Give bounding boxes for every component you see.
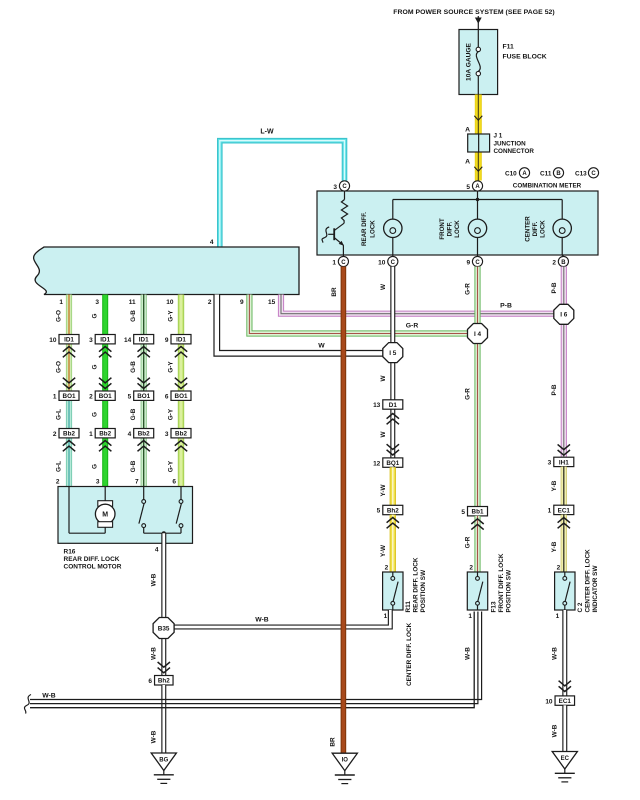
- wire G-Y: BO1 to Bb2: [178, 400, 184, 428]
- label R16 REAR DIFF. LOCK CONTROL MOTOR: [64, 549, 122, 571]
- wire: supply into fuse F11: [475, 16, 482, 30]
- svg-text:G-R: G-R: [464, 283, 471, 295]
- svg-text:I 6: I 6: [560, 312, 568, 319]
- wire G-B: ID1 to BO1: [138, 344, 150, 391]
- svg-text:POSITION SW: POSITION SW: [420, 569, 427, 613]
- wire G-Y: Bb2 to motor pin 6: [175, 438, 187, 487]
- svg-text:FROM POWER SOURCE SYSTEM (SEE: FROM POWER SOURCE SYSTEM (SEE PAGE 52): [393, 9, 554, 16]
- svg-text:P-B: P-B: [551, 282, 558, 293]
- svg-text:C: C: [591, 171, 596, 177]
- wire G-B: Bb2 to motor pin 7: [138, 438, 150, 487]
- connector IH1 pin 3: [548, 457, 574, 466]
- svg-text:5: 5: [128, 393, 132, 400]
- wire G-R: Bb1 to F13 pin 2: [464, 516, 483, 572]
- svg-text:9: 9: [466, 259, 470, 266]
- motor M symbol: [69, 487, 115, 534]
- meter pin 10 connector C: [378, 255, 398, 267]
- svg-text:5: 5: [377, 508, 381, 515]
- svg-text:BO1: BO1: [99, 393, 112, 400]
- svg-text:G-L: G-L: [56, 409, 63, 420]
- connector row ID1: [49, 335, 191, 344]
- connector codes C10 C11 C13: [505, 168, 599, 178]
- wire G: Bb2 to motor pin 3: [99, 438, 111, 487]
- svg-text:G-L: G-L: [56, 461, 63, 472]
- meter pin 3 connector C: [333, 181, 349, 191]
- wire G: BO1 to Bb2: [102, 400, 108, 428]
- motor limit switch 1: [139, 487, 146, 534]
- switch C2 center diff lock indicator sw: [555, 549, 599, 620]
- wire Y-B: EC1 to C2 pin 2: [551, 515, 570, 572]
- svg-text:G-B: G-B: [130, 361, 137, 373]
- svg-text:BO1: BO1: [175, 393, 188, 400]
- svg-text:LOCK: LOCK: [540, 220, 547, 238]
- svg-text:1: 1: [53, 393, 57, 400]
- wire G-B: BO1 to Bb2: [141, 400, 147, 428]
- svg-text:G-O: G-O: [56, 361, 63, 373]
- junction I5: [383, 343, 403, 363]
- svg-text:INDICATOR SW: INDICATOR SW: [592, 565, 599, 613]
- svg-text:Y-W: Y-W: [380, 544, 387, 557]
- svg-text:EC: EC: [561, 756, 570, 762]
- svg-text:F11: F11: [503, 44, 515, 51]
- wire G-O: ID1 to BO1: [63, 344, 75, 391]
- lamp: rear diff lock indicator: [361, 200, 402, 256]
- svg-text:12: 12: [373, 460, 381, 467]
- svg-text:1: 1: [468, 613, 472, 620]
- svg-text:I 5: I 5: [389, 350, 397, 357]
- svg-text:ID1: ID1: [64, 337, 74, 344]
- svg-text:10: 10: [545, 698, 553, 705]
- svg-text:G-O: G-O: [56, 310, 63, 322]
- wire G-R: I4 down to Bb1: [464, 343, 477, 507]
- wire G-R: ECU pin 9 to junction I4: [249, 295, 468, 334]
- svg-text:W: W: [380, 431, 387, 438]
- svg-text:Bh2: Bh2: [387, 507, 399, 514]
- wire G: ID1 to BO1: [99, 344, 111, 391]
- svg-text:W-B: W-B: [255, 617, 269, 624]
- connector EC1 pin 10: [545, 696, 574, 705]
- svg-text:10: 10: [49, 337, 57, 344]
- svg-text:J 1: J 1: [494, 133, 503, 140]
- svg-text:Y-B: Y-B: [551, 480, 558, 491]
- svg-text:1: 1: [332, 259, 336, 266]
- ground BG: [151, 753, 176, 783]
- svg-text:2: 2: [89, 393, 93, 400]
- connector row Bb2: [53, 429, 191, 438]
- svg-text:CONNECTOR: CONNECTOR: [494, 148, 535, 155]
- svg-text:R11: R11: [405, 601, 412, 613]
- labels G-O G G-B G-Y (segment 1): [56, 310, 175, 322]
- svg-text:B: B: [556, 171, 561, 177]
- svg-text:P-B: P-B: [500, 303, 512, 310]
- svg-text:14: 14: [124, 337, 132, 344]
- connector BQ1 pin 12: [373, 458, 403, 467]
- svg-text:10: 10: [378, 259, 386, 266]
- svg-text:G-R: G-R: [464, 388, 471, 400]
- svg-text:G-Y: G-Y: [168, 408, 175, 420]
- svg-text:BQ1: BQ1: [386, 460, 399, 467]
- svg-text:9: 9: [165, 337, 169, 344]
- svg-text:A: A: [465, 127, 470, 134]
- svg-text:G-R: G-R: [406, 323, 419, 330]
- label COMBINATION METER: [513, 182, 582, 189]
- switch F13 front diff lock position sw: [467, 553, 512, 620]
- wire BR: meter pin 1 to ground IO: [330, 267, 344, 754]
- svg-text:5: 5: [461, 509, 465, 516]
- svg-text:REAR DIFF.: REAR DIFF.: [361, 212, 368, 246]
- svg-text:C: C: [342, 184, 347, 190]
- svg-text:G-B: G-B: [130, 310, 137, 322]
- svg-text:M: M: [102, 512, 108, 519]
- svg-text:F13: F13: [491, 601, 498, 612]
- wire L-W: ECU pin 4 to meter pin 3: [220, 129, 345, 248]
- svg-text:C 2: C 2: [577, 602, 584, 612]
- wire G-B: ECU pin 11 to ID1: [141, 295, 147, 335]
- svg-text:6: 6: [148, 678, 152, 685]
- svg-text:C10: C10: [505, 170, 517, 177]
- svg-text:Bh2: Bh2: [158, 678, 170, 685]
- svg-text:G-Y: G-Y: [168, 310, 175, 322]
- svg-text:G: G: [92, 464, 99, 469]
- svg-text:BG: BG: [159, 757, 168, 763]
- svg-text:A: A: [465, 159, 470, 166]
- svg-text:G: G: [92, 313, 99, 318]
- label CENTER DIFF. LOCK (rotated): [406, 622, 413, 686]
- svg-text:7: 7: [135, 478, 139, 485]
- junction I6: [554, 304, 574, 324]
- svg-text:W-B: W-B: [465, 647, 472, 660]
- svg-text:2: 2: [469, 564, 473, 571]
- svg-text:FRONT DIFF. LOCK: FRONT DIFF. LOCK: [498, 553, 505, 612]
- svg-text:2: 2: [208, 299, 212, 306]
- lamp: center diff lock indicator: [525, 200, 572, 256]
- wire W arrow: D1 to BQ1: [380, 409, 399, 458]
- svg-text:REAR DIFF. LOCK: REAR DIFF. LOCK: [413, 557, 420, 612]
- wire P-B: I6 down to IH1: [551, 324, 570, 457]
- svg-text:G-B: G-B: [130, 408, 137, 420]
- svg-text:11: 11: [129, 299, 136, 306]
- wire W-B: EC1 to ground EC: [552, 705, 565, 751]
- svg-text:Bb2: Bb2: [175, 431, 187, 438]
- wire W: meter pin 10 down through I5: [380, 267, 393, 343]
- svg-text:5: 5: [466, 184, 470, 191]
- svg-text:JUNCTION: JUNCTION: [494, 140, 527, 147]
- motor unit R16 rear diff lock control motor: [56, 478, 193, 543]
- svg-text:3: 3: [333, 184, 337, 191]
- svg-text:3: 3: [96, 478, 100, 485]
- svg-text:W-B: W-B: [552, 647, 559, 660]
- label W-B for F13 ground wire: [465, 647, 472, 660]
- ECU pins 1 3 11 10 2 9 15: [59, 299, 275, 306]
- svg-text:2: 2: [53, 431, 57, 438]
- svg-text:IH1: IH1: [559, 459, 569, 466]
- wire G-L: BO1 to Bb2: [66, 400, 72, 428]
- wire Y: fuse to combination meter pin 5: [475, 95, 482, 181]
- connector Bb1 pin 5: [461, 507, 487, 516]
- ECU box (continues left): [34, 239, 299, 295]
- svg-text:EC1: EC1: [558, 507, 571, 514]
- svg-text:Bb2: Bb2: [138, 431, 150, 438]
- svg-text:R16: R16: [64, 549, 76, 556]
- svg-text:CENTER DIFF. LOCK: CENTER DIFF. LOCK: [585, 549, 592, 613]
- svg-text:G-R: G-R: [464, 536, 471, 548]
- wire Y-B: IH1 to EC1: [551, 467, 564, 506]
- svg-text:4: 4: [210, 239, 214, 246]
- wire W-B: Bh2 to ground BG: [151, 685, 164, 753]
- svg-text:W-B: W-B: [42, 693, 56, 700]
- svg-text:DIFF.: DIFF.: [532, 221, 539, 236]
- svg-text:3: 3: [89, 337, 93, 344]
- svg-text:13: 13: [373, 402, 381, 409]
- svg-text:2: 2: [552, 259, 556, 266]
- fuse F11 (10A GAUGE fuse block): [459, 30, 498, 95]
- svg-text:P-B: P-B: [551, 384, 558, 395]
- wire G-Y: ID1 to BO1: [175, 344, 187, 391]
- svg-text:ID1: ID1: [139, 337, 149, 344]
- svg-text:LOCK: LOCK: [454, 220, 461, 238]
- labels G-O G G-B G-Y (segment 2): [56, 361, 175, 373]
- svg-text:REAR DIFF. LOCK: REAR DIFF. LOCK: [64, 556, 120, 563]
- svg-text:1: 1: [556, 613, 560, 620]
- connector EC1 pin 1: [548, 505, 574, 514]
- svg-text:Y-B: Y-B: [551, 541, 558, 552]
- svg-text:BO1: BO1: [137, 393, 150, 400]
- svg-text:C13: C13: [575, 170, 587, 177]
- combination meter box: [317, 191, 598, 255]
- connector Bh2 pin 5: [377, 505, 403, 514]
- svg-text:EC1: EC1: [559, 698, 572, 705]
- svg-text:B: B: [561, 260, 566, 266]
- meter pin 5 connector A: [466, 181, 482, 191]
- svg-text:IO: IO: [342, 758, 349, 764]
- svg-text:B35: B35: [158, 625, 170, 632]
- svg-text:C: C: [341, 260, 346, 266]
- svg-text:1: 1: [548, 508, 552, 515]
- svg-text:BO1: BO1: [63, 393, 76, 400]
- svg-text:10: 10: [166, 299, 174, 306]
- wire Y-W: BQ1 to Bh2: [380, 467, 393, 505]
- svg-text:POSITION SW: POSITION SW: [506, 569, 513, 613]
- svg-text:W: W: [318, 342, 325, 349]
- svg-text:2: 2: [557, 564, 561, 571]
- ground EC: [552, 752, 577, 782]
- svg-text:COMBINATION METER: COMBINATION METER: [513, 182, 582, 189]
- svg-text:3: 3: [95, 299, 99, 306]
- svg-text:Bb2: Bb2: [63, 431, 75, 438]
- svg-text:ID1: ID1: [176, 337, 186, 344]
- svg-text:C: C: [475, 260, 480, 266]
- svg-text:BR: BR: [331, 287, 338, 297]
- svg-text:G-B: G-B: [130, 460, 137, 472]
- svg-text:2: 2: [56, 478, 60, 485]
- wire P-B: ECU pin 15 to junction I6: [281, 295, 554, 314]
- wire W-B bus: off-page to F13 pin 1: [24, 612, 481, 714]
- wire W-B: B35 down to Bh2: [151, 637, 171, 676]
- wire Y-W: Bh2 to R11 pin 2: [380, 515, 399, 572]
- labels G-L G G-B G-Y (segment 3): [56, 408, 175, 420]
- wire W-B: C2 pin 1 to EC1: [552, 610, 572, 696]
- svg-text:10A GAUGE: 10A GAUGE: [466, 42, 473, 80]
- svg-text:W-B: W-B: [151, 573, 158, 586]
- svg-text:DIFF.: DIFF.: [447, 221, 454, 236]
- title: from power source system: [393, 9, 554, 16]
- switch R11 rear diff lock position sw: [383, 557, 427, 620]
- svg-text:FUSE BLOCK: FUSE BLOCK: [503, 54, 547, 61]
- svg-text:A: A: [475, 184, 480, 190]
- transistor Q (rear diff lock indicator driver): [322, 223, 344, 255]
- svg-text:1: 1: [59, 299, 63, 306]
- svg-text:W: W: [380, 375, 387, 382]
- wire W-B: motor pin 4 to junction B35: [151, 533, 164, 619]
- labels G-L G G-B G-Y (segment 4): [56, 460, 175, 472]
- svg-text:6: 6: [165, 393, 169, 400]
- svg-text:6: 6: [172, 478, 176, 485]
- wire G-R: meter pin 9 down through I4: [464, 267, 477, 324]
- meter pin 9 connector C: [466, 255, 482, 267]
- svg-text:9: 9: [240, 299, 244, 306]
- svg-text:3: 3: [548, 460, 552, 467]
- svg-text:2: 2: [385, 564, 389, 571]
- lamp: front diff lock indicator: [439, 200, 487, 256]
- connector D1 pin 13: [373, 400, 403, 409]
- svg-text:D1: D1: [389, 402, 398, 409]
- svg-text:L-W: L-W: [260, 129, 274, 136]
- svg-text:W: W: [380, 283, 387, 290]
- svg-text:Bb2: Bb2: [99, 431, 111, 438]
- svg-text:I 4: I 4: [474, 331, 482, 338]
- svg-text:15: 15: [268, 299, 276, 306]
- connector mark above J1: [465, 116, 482, 134]
- meter internal supply rail: [393, 191, 562, 201]
- svg-text:W-B: W-B: [151, 730, 158, 743]
- motor limit switch 2: [176, 487, 183, 534]
- motor common node to pin 4: [144, 531, 181, 553]
- svg-text:CONTROL MOTOR: CONTROL MOTOR: [64, 564, 122, 571]
- wire W: I5 to D1: [380, 362, 393, 400]
- svg-text:CENTER: CENTER: [525, 216, 532, 242]
- wire G-O: ECU pin 1 to ID1: [66, 295, 72, 335]
- svg-text:BR: BR: [330, 737, 337, 747]
- junction I4: [468, 324, 488, 344]
- svg-text:G-Y: G-Y: [168, 460, 175, 472]
- svg-text:3: 3: [165, 431, 169, 438]
- svg-text:G: G: [92, 364, 99, 369]
- svg-text:FRONT: FRONT: [439, 218, 446, 240]
- meter pin 2 connector B: [552, 255, 568, 267]
- connector Bh2 pin 6: [148, 676, 173, 686]
- svg-text:CENTER DIFF. LOCK: CENTER DIFF. LOCK: [406, 622, 413, 686]
- label F11 FUSE BLOCK: [503, 44, 547, 61]
- svg-text:ID1: ID1: [100, 337, 110, 344]
- svg-text:4: 4: [155, 547, 159, 554]
- svg-text:LOCK: LOCK: [370, 220, 377, 238]
- svg-text:Bb1: Bb1: [472, 509, 484, 516]
- connector row BO1: [53, 391, 191, 400]
- ground IO: [332, 753, 357, 783]
- svg-text:W-B: W-B: [151, 647, 158, 660]
- wire G-Y: ECU pin 10 to ID1: [178, 295, 184, 335]
- wire G: ECU pin 3 to ID1: [102, 295, 108, 335]
- svg-text:1: 1: [384, 613, 388, 620]
- svg-text:G-Y: G-Y: [168, 361, 175, 373]
- connector mark below J1: [465, 159, 482, 172]
- svg-text:1: 1: [89, 431, 93, 438]
- svg-text:C: C: [391, 260, 396, 266]
- junction B35: [153, 618, 174, 639]
- resistor in meter: [341, 191, 347, 223]
- wire W: ECU pin 2 to junction I5: [217, 295, 383, 354]
- wire P-B: meter pin 2 down through I6: [551, 267, 564, 304]
- junction connector J1: [468, 133, 535, 156]
- svg-text:C11: C11: [540, 170, 552, 177]
- svg-text:G: G: [92, 412, 99, 417]
- meter pin 1 connector C: [332, 255, 348, 267]
- svg-text:A: A: [522, 171, 527, 177]
- svg-text:Y-W: Y-W: [380, 484, 387, 497]
- svg-text:W-B: W-B: [552, 724, 559, 737]
- wire W-B: B35 to R11 pin 1: [174, 610, 390, 627]
- svg-text:4: 4: [128, 431, 132, 438]
- wire G-L: Bb2 to motor pin 2: [63, 438, 75, 487]
